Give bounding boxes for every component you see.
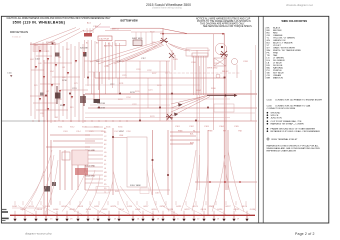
svg-text:S345: S345 <box>106 127 110 129</box>
ground G106 <box>65 219 68 222</box>
wire cross y141 <box>53 140 95 142</box>
wire diag up 2 <box>46 29 80 45</box>
svg-text:J65: J65 <box>62 67 65 69</box>
ladder rung 10 <box>85 162 103 164</box>
svg-text:G118: G118 <box>151 209 157 211</box>
connector plug P3 <box>55 64 57 67</box>
svg-text:G104: G104 <box>37 209 43 211</box>
legend note connector line <box>267 99 323 111</box>
connector block C120 <box>115 41 126 46</box>
wire cross c7 <box>44 62 72 64</box>
wire column x172 <box>171 50 173 215</box>
wire rail 1 <box>84 60 170 62</box>
ladder rung 9 <box>85 158 103 160</box>
wire drop to label d8 <box>79 201 81 205</box>
wire drop to label d22 <box>215 201 217 205</box>
svg-text:G107: G107 <box>61 206 67 208</box>
junction blob j14 <box>152 159 154 161</box>
svg-text:TNK: TNK <box>238 131 243 133</box>
svg-text:J4: J4 <box>104 160 106 162</box>
ground G110 <box>107 219 110 222</box>
svg-text:S314 GND: S314 GND <box>85 176 96 178</box>
wire branch L10 <box>66 42 68 119</box>
wire stub f6 <box>117 78 119 94</box>
bottom box n1 <box>96 187 109 194</box>
wire branch L7 <box>54 42 56 118</box>
connector plug P13 <box>71 96 73 99</box>
main ground bus <box>10 214 255 216</box>
wire sweep arc a9 <box>210 206 226 215</box>
arrow marker rear 1 <box>178 103 183 107</box>
wire bottom cross <box>85 189 113 191</box>
wire rail r105 <box>90 104 170 106</box>
ground lead ticks above bus <box>15 211 247 216</box>
wire column x197 <box>196 50 198 190</box>
module box M1 <box>75 168 88 175</box>
node dot k3 <box>239 181 241 183</box>
svg-text:ABS: ABS <box>190 142 195 145</box>
frame tick rail y73 <box>165 72 240 74</box>
label rows under rail y121 <box>58 127 122 129</box>
svg-text:G111: G111 <box>94 206 100 208</box>
junction blob j5 <box>52 43 54 45</box>
ground G114 <box>151 219 154 222</box>
svg-text:CONNECTOR 100 FRAME TO ENGIN: CONNECTOR 100 FRAME TO ENGINE BK/WH <box>275 99 322 102</box>
ground G105 <box>55 219 58 222</box>
svg-text:G5: G5 <box>104 152 107 154</box>
fan curve 6 <box>225 165 236 212</box>
svg-text:DRIVETRAIN: DRIVETRAIN <box>10 30 28 34</box>
conduit left wall <box>93 72 95 100</box>
wire branch L4 <box>42 42 44 117</box>
junction blob j4 <box>195 120 197 122</box>
fan curve 3 <box>202 160 208 212</box>
wire stub k4 <box>170 143 193 145</box>
wire column x78 low <box>77 150 79 190</box>
wire drop t146 <box>145 32 147 46</box>
fan curve 1 <box>181 150 196 211</box>
wire stub k3 <box>170 139 200 141</box>
svg-text:G125: G125 <box>209 206 215 208</box>
wire branch L2 <box>34 44 36 119</box>
wire cross y135 <box>50 134 90 136</box>
connector plug P7 <box>59 90 61 93</box>
splice blob S108 <box>44 186 50 192</box>
svg-text:BOTTOM VIEW: BOTTOM VIEW <box>121 20 139 23</box>
ground G102 <box>23 219 26 222</box>
svg-text:G108: G108 <box>69 209 75 211</box>
wire diag up 1 <box>58 30 84 44</box>
junction blob j7 <box>98 107 100 109</box>
svg-text:B3: B3 <box>96 43 98 45</box>
legend wire color list <box>267 27 302 80</box>
svg-text:G116: G116 <box>135 209 141 211</box>
svg-text:C98: C98 <box>58 99 61 101</box>
ground G117 <box>182 219 185 222</box>
wire drop to label d14 <box>136 201 138 205</box>
svg-text:chassis frame wiring routing: chassis frame wiring routing <box>152 7 182 10</box>
splice blob S105 <box>94 99 101 103</box>
wire branch L12 <box>74 46 76 117</box>
wire sweep arc a1 <box>18 206 34 215</box>
wire drop to label d12 <box>117 201 119 205</box>
svg-text:R5: R5 <box>104 184 106 186</box>
ground G103 <box>34 219 37 222</box>
wire column x152 <box>152 130 154 195</box>
svg-text:CAUTION: ALL WIRE HARNESS COLO: CAUTION: ALL WIRE HARNESS COLORS AND CIR… <box>7 17 112 20</box>
connector plug P8 <box>39 98 41 101</box>
svg-text:E3: E3 <box>104 144 106 146</box>
ground G120 <box>212 219 215 222</box>
svg-text:HARNESS TIE STRAP -- LOWER: HARNESS TIE STRAP -- LOWER <box>271 123 305 126</box>
ladder rung 14 <box>85 178 103 180</box>
ground G108 <box>86 219 89 222</box>
svg-text:G126: G126 <box>217 209 223 211</box>
mini knot <box>169 53 174 58</box>
wire drop to label d18 <box>175 201 177 205</box>
ground G113 <box>141 219 144 222</box>
wire right edge rail <box>255 45 257 211</box>
svg-text:G112: G112 <box>102 209 108 211</box>
bottom box n2 <box>140 188 149 194</box>
legend bullet items <box>267 112 321 153</box>
svg-text:C226: C226 <box>136 69 141 71</box>
wire drop to label d6 <box>59 201 61 205</box>
legend tick column <box>264 27 266 79</box>
wire rail r72 <box>88 71 170 73</box>
module outline box <box>214 104 234 112</box>
wire stub f7 <box>125 61 127 78</box>
ladder rung 6 <box>85 146 103 148</box>
splice blob S109 <box>52 182 56 186</box>
node dot k2 <box>224 181 226 183</box>
wire cross c8 <box>52 76 80 78</box>
connector plug P14 <box>47 108 49 111</box>
wire ac diagonal <box>93 24 101 31</box>
svg-text:C303: C303 <box>63 131 68 133</box>
ground G122 <box>232 219 235 222</box>
wire drop to label d19 <box>185 201 187 205</box>
wire engine feed top <box>95 26 110 28</box>
cab outline arc <box>170 44 210 51</box>
connector plug P11 <box>83 52 85 55</box>
wire drop to label d16 <box>155 201 157 205</box>
wire rail 4 <box>88 107 257 109</box>
svg-text:G121: G121 <box>176 206 182 208</box>
connector block C112 <box>98 36 112 41</box>
wire drop t136 <box>135 32 137 46</box>
svg-text:chassis-diagram.net: chassis-diagram.net <box>286 3 313 7</box>
wire drop to label d25 <box>245 201 247 205</box>
ladder spine <box>112 128 114 195</box>
ladder rung 7 <box>85 150 103 152</box>
svg-text:REFERENCE CHART ABOVE: REFERENCE CHART ABOVE <box>267 149 297 152</box>
svg-text:S334: S334 <box>94 127 98 129</box>
svg-text:S76: S76 <box>34 85 37 87</box>
wire column x60 low <box>59 150 61 190</box>
wire rail r113 <box>85 112 255 114</box>
svg-text:S19: S19 <box>70 107 73 109</box>
svg-text:S224: S224 <box>118 99 122 101</box>
harness knot dark <box>160 38 168 43</box>
svg-text:G24: G24 <box>30 59 34 61</box>
svg-text:TRANS C7: TRANS C7 <box>110 28 119 31</box>
svg-text:SELEC: SELEC <box>222 71 229 73</box>
connector plug P6 <box>51 84 53 87</box>
wire branch L13 <box>78 42 80 120</box>
ground G115 <box>161 219 164 222</box>
panel divider line left <box>258 16 260 223</box>
harness trunk thick <box>207 95 234 96</box>
ground G104 <box>44 219 47 222</box>
ladder label column <box>104 127 107 194</box>
wire drop C226 <box>225 56 227 190</box>
wire column x160 <box>159 61 161 121</box>
fuel tank box <box>127 137 147 187</box>
wire cross c5 <box>30 95 48 97</box>
ladder rung 13 <box>85 174 103 176</box>
wire rail r99 <box>85 98 230 100</box>
wire drop to label d3 <box>31 201 33 205</box>
wire column pair x166 <box>166 61 168 121</box>
svg-text:RT22: RT22 <box>150 32 155 34</box>
wire stub f8 <box>147 78 149 108</box>
fan to knot 3 <box>106 43 162 66</box>
label margin G line 2 <box>1 218 9 220</box>
wire diagonal brace 3 <box>171 96 207 112</box>
fan left 4 <box>62 165 88 212</box>
svg-text:N 1500 42: N 1500 42 <box>12 37 21 39</box>
junction blob j1 <box>87 77 89 79</box>
wire column x85 low <box>84 150 86 190</box>
wire rail r117 <box>85 117 230 119</box>
wire cross c1 <box>30 44 56 46</box>
svg-text:S9: S9 <box>104 188 106 190</box>
wire diagonal brace 1 <box>171 96 207 105</box>
svg-text:G128: G128 <box>233 209 239 211</box>
ribbon column lines <box>193 56 195 95</box>
svg-text:C2: C2 <box>104 136 106 138</box>
bundle knot low <box>166 114 173 120</box>
splice blob S104 <box>40 93 44 96</box>
svg-text:C65: C65 <box>62 77 65 79</box>
svg-text:D8: D8 <box>104 140 106 142</box>
svg-text:C234: C234 <box>126 97 131 99</box>
svg-text:G113: G113 <box>110 206 116 208</box>
wire sweep arc a5 <box>114 206 130 215</box>
wire branch L5 <box>46 44 48 120</box>
ladder rung 11 <box>85 166 103 168</box>
svg-text:S301: S301 <box>58 127 62 129</box>
node dot k1 <box>209 181 211 183</box>
wire rail 2 <box>95 77 225 79</box>
connector plug P9 <box>67 72 69 75</box>
conduit right wall <box>99 72 101 100</box>
ribbon cap box <box>192 53 208 57</box>
wire branch L14 <box>82 44 84 123</box>
svg-text:LINE: LINE <box>119 135 124 137</box>
wire branch L1 <box>30 42 32 116</box>
svg-text:G114: G114 <box>119 209 125 211</box>
wire arc mid <box>122 42 162 62</box>
wire drop to label d13 <box>126 201 128 205</box>
wire drop to label d20 <box>195 201 197 205</box>
svg-text:FRM: FRM <box>208 131 213 133</box>
svg-text:WIRE COLOR NOTES: WIRE COLOR NOTES <box>282 20 308 23</box>
wire fan 2 <box>166 44 175 56</box>
ground G119 <box>202 219 205 222</box>
wire drop C163 <box>162 28 164 40</box>
svg-text:M8: M8 <box>104 172 107 174</box>
trunk arrowhead <box>234 94 237 97</box>
wire cross c3 <box>31 69 44 71</box>
label row under rail: k labels <box>175 126 243 133</box>
svg-text:F7: F7 <box>104 148 106 150</box>
svg-text:C20: C20 <box>40 113 43 115</box>
connector plug P2 <box>47 58 49 61</box>
svg-text:S233: S233 <box>157 85 161 87</box>
wire column x44 low <box>43 60 45 215</box>
wire drop to label d21 <box>205 201 207 205</box>
svg-text:G302 BK: G302 BK <box>97 103 106 105</box>
junction blob j3 <box>159 107 161 109</box>
wire column x47 low <box>47 60 49 215</box>
wire drop to label d15 <box>146 201 148 205</box>
relay box K2 <box>72 150 88 165</box>
svg-text:C232: C232 <box>147 70 152 72</box>
ground id labels below bus <box>50 217 240 220</box>
svg-text:C10: C10 <box>34 45 37 47</box>
harness knot right <box>220 51 228 57</box>
fan left 12 <box>24 170 44 211</box>
junction dot trunk <box>225 95 227 97</box>
fan left 7 <box>99 180 113 213</box>
wire cross c6 <box>36 109 68 111</box>
connector box t4 <box>133 40 142 46</box>
ladder rung 8 <box>85 154 103 156</box>
wire column x251 <box>250 70 252 121</box>
label margin G line 1 <box>1 211 8 213</box>
wire cross c10 <box>33 102 57 104</box>
svg-text:G105: G105 <box>45 206 51 208</box>
fan left 6 <box>86 175 100 213</box>
wire cross y147 <box>46 146 90 148</box>
connector block C110 <box>84 33 92 37</box>
wire column x213 <box>213 34 215 130</box>
svg-text:C325: C325 <box>89 131 94 133</box>
svg-text:C222: C222 <box>132 104 137 106</box>
ladder rung 2 <box>85 130 103 132</box>
svg-text:J32: J32 <box>58 57 61 59</box>
relay box K1 <box>62 152 70 160</box>
fan left 5 <box>74 170 95 212</box>
svg-text:C336: C336 <box>101 131 106 133</box>
svg-text:C347: C347 <box>114 131 119 133</box>
wire rail 3 main <box>85 93 257 95</box>
wire drop t152 <box>151 32 153 46</box>
panel divider line right <box>262 16 264 223</box>
svg-text:MR: MR <box>267 78 271 80</box>
wire drop ac3 <box>92 28 94 33</box>
svg-text:C73: C73 <box>74 83 77 85</box>
ground G101 <box>13 219 16 222</box>
svg-text:B1: B1 <box>86 43 88 45</box>
svg-text:XFER 4WD: XFER 4WD <box>207 68 218 70</box>
ground G107 <box>76 219 79 222</box>
wire branch L9 <box>62 46 64 116</box>
wire sweep arc a8 <box>186 206 202 215</box>
svg-text:G122: G122 <box>184 209 190 211</box>
svg-text:C319: C319 <box>155 193 160 195</box>
wire drop to label d1 <box>14 201 16 205</box>
wire drop to label d10 <box>98 201 100 205</box>
svg-text:G120: G120 <box>168 209 174 211</box>
wire bottom link <box>195 181 257 183</box>
fan to knot 2 <box>98 42 161 64</box>
junction blob j10 <box>207 107 209 109</box>
svg-text:VENT: VENT <box>119 131 125 133</box>
svg-text:G123: G123 <box>192 206 198 208</box>
ladder rung 5 <box>85 142 103 144</box>
fan to knot 4 <box>114 44 163 64</box>
svg-text:C100: C100 <box>267 100 273 102</box>
svg-text:T2: T2 <box>104 192 106 194</box>
svg-text:C358: C358 <box>126 131 131 133</box>
wire branch L3 <box>38 46 40 122</box>
junction blob j12 <box>45 95 47 97</box>
junction blob j11 <box>171 93 173 95</box>
svg-text:S231: S231 <box>119 83 123 85</box>
wire drop C225 <box>223 34 225 216</box>
fan left 3 <box>46 160 58 212</box>
svg-text:MAROON: MAROON <box>273 77 283 80</box>
ladder rung 4 <box>85 138 103 140</box>
svg-text:S323: S323 <box>82 127 86 129</box>
svg-text:G117: G117 <box>143 206 149 208</box>
svg-text:G129: G129 <box>242 206 248 208</box>
ground G123 <box>245 219 248 222</box>
wire branch L8 <box>58 44 60 121</box>
svg-text:CONNECTOR SPLICE WIRE: CONNECTOR SPLICE WIRE <box>267 108 296 110</box>
junction blob j8 <box>139 120 141 122</box>
wire drop x175 <box>174 55 176 70</box>
wire drop to label d11 <box>107 201 109 205</box>
fan left 1 <box>22 150 52 211</box>
svg-text:C221: C221 <box>148 90 153 92</box>
ladder rung 12 <box>85 170 103 172</box>
transfer case ring <box>215 43 227 55</box>
junction blob j2 <box>119 93 121 95</box>
svg-text:G127: G127 <box>225 206 231 208</box>
connector plug P4 <box>35 66 37 69</box>
junction dot bus2 <box>222 33 224 35</box>
wire column x168 <box>167 61 169 121</box>
wire sweep arc a4 <box>90 206 106 215</box>
junction blob j9 <box>224 77 226 79</box>
svg-text:G130: G130 <box>250 209 256 211</box>
svg-text:Page 2 of 2: Page 2 of 2 <box>295 232 315 236</box>
left start box <box>33 45 47 52</box>
wire column x65 low <box>64 150 66 190</box>
svg-text:G119: G119 <box>160 206 166 208</box>
harness dark segment a <box>56 86 58 104</box>
ladder rung 3 <box>85 134 103 136</box>
wire branch L6 <box>50 46 52 123</box>
svg-text:diagram-source.php: diagram-source.php <box>25 232 52 236</box>
svg-text:G102: G102 <box>20 209 26 211</box>
svg-text:C230: C230 <box>104 66 109 68</box>
wire drop x237 <box>236 65 238 79</box>
